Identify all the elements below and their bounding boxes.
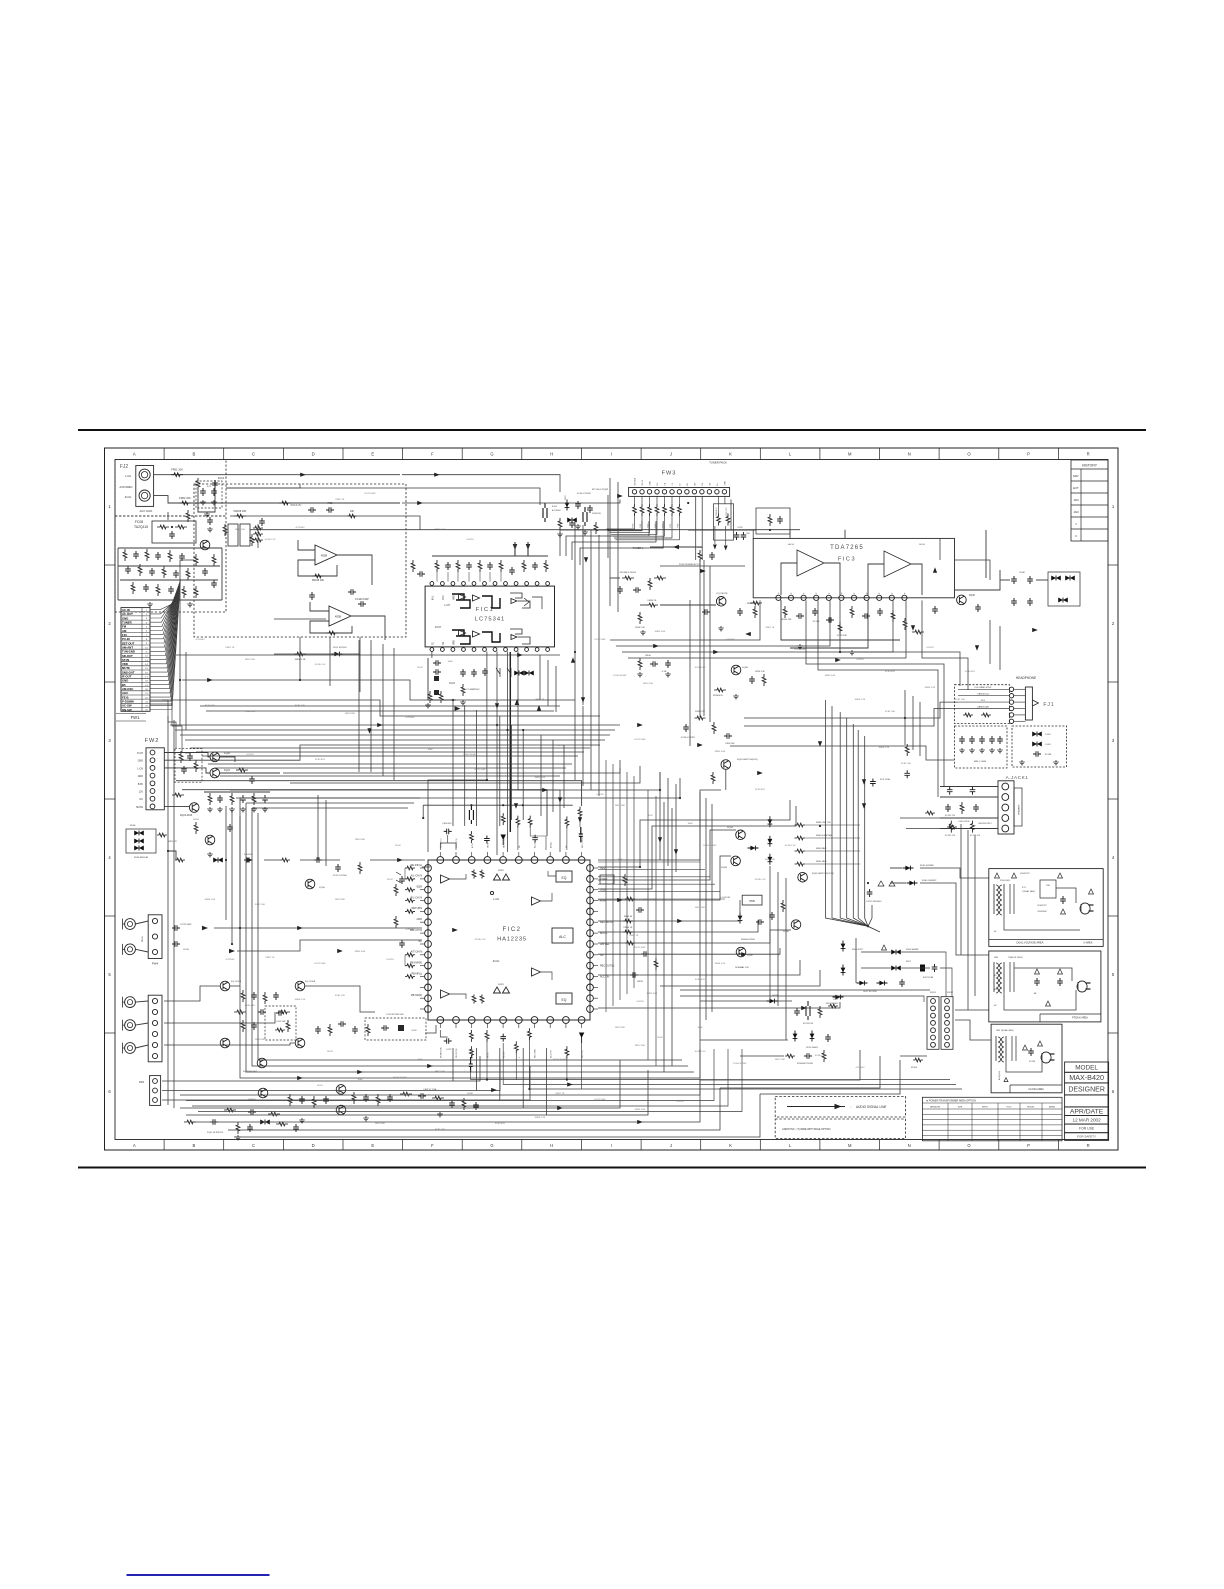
svg-text:3: 3 [108,738,111,743]
svg-text:4.7U/50V: 4.7U/50V [405,717,415,719]
svg-text:REC MUTE: REC MUTE [600,921,613,924]
svg-text:O2: O2 [443,641,445,645]
svg-text:FR06: FR06 [645,655,651,657]
rectifier diodes [867,865,938,903]
svg-text:P: P [1027,1143,1030,1148]
svg-text:P: P [816,592,818,594]
svg-text:B: B [193,1143,196,1148]
svg-text:FC36 4.7U/35V: FC36 4.7U/35V [681,737,695,739]
wire FQ21 out [219,772,280,774]
svg-text:FC64 1U/50V: FC64 1U/50V [393,1077,407,1079]
svg-text:FC30 47U: FC30 47U [755,789,765,791]
FW1 fan-out wires [150,580,180,710]
RCA jack REC-L [125,997,136,1008]
resistor FR68 [172,793,184,797]
svg-text:FR12 10K: FR12 10K [435,1071,445,1073]
FIC2 internal blocks [441,870,574,1005]
svg-text:FQ04: FQ04 [727,827,733,829]
svg-text:AUDIO SIGNAL LINE: AUDIO SIGNAL LINE [856,1105,887,1109]
svg-text:FW11: FW11 [930,992,936,994]
svg-text:FR01 10K: FR01 10K [171,468,183,472]
svg-text:FC45 0.1U: FC45 0.1U [755,879,766,881]
bottom staircase bus to transformer [180,1049,742,1112]
FIC2 bottom bus wires [471,1040,962,1090]
svg-text:FR02 10K: FR02 10K [179,496,191,500]
power transformer option table [922,1097,1062,1141]
svg-text:FR12 10K: FR12 10K [765,859,775,861]
svg-text:L-CH: L-CH [444,604,450,607]
svg-text:4.7U/50V: 4.7U/50V [225,959,235,961]
headphone jack wiring [958,687,1009,717]
svg-text:FQ20: FQ20 [224,752,231,755]
transistor FQ20 [210,752,220,762]
svg-text:EQR: EQR [417,886,423,889]
svg-text:CE: CE [665,482,667,485]
svg-text:A/L-CH IN: A/L-CH IN [411,875,423,878]
svg-text:P: P [778,592,780,594]
svg-text:100K: 100K [687,823,693,825]
svg-text:100K: 100K [417,1059,423,1061]
svg-text:AREA: AREA [1049,1105,1055,1108]
svg-text:C: C [252,452,255,457]
wire rec jacks [135,1001,148,1048]
svg-text:FR77: FR77 [834,999,840,1001]
svg-text:3: 3 [1112,738,1115,743]
svg-text:N: N [908,1143,911,1148]
svg-text:FM: FM [702,482,704,485]
svg-text:CANCEL(R): CANCEL(R) [977,705,989,708]
connector FJ1 headphone jack [1009,687,1038,724]
svg-text:FQ08: FQ08 [742,667,748,669]
svg-text:FC81 10U: FC81 10U [295,705,305,707]
svg-text:TA2Q115: TA2Q115 [134,525,148,529]
bottom-left bias parts [184,1119,299,1140]
connector FW5 [148,995,162,1062]
svg-text:FD02: FD02 [317,1085,323,1087]
svg-text:0V: 0V [994,1005,997,1007]
svg-text:G: G [490,1143,493,1148]
RCA jack REC-R [125,1020,136,1031]
FW3 right caps and arrows [713,526,751,551]
svg-text:FC45 0.1U: FC45 0.1U [315,664,326,666]
svg-text:FC22 100P: FC22 100P [794,649,806,651]
FW3 left parts cluster [565,489,610,558]
svg-text:FL18 FILTER 50R: FL18 FILTER 50R [387,1014,404,1016]
svg-text:MODEL: MODEL [1027,1106,1035,1108]
svg-text:100K: 100K [617,859,623,861]
svg-text:EQ: EQ [562,876,567,880]
svg-text:FR07 1K: FR07 1K [266,957,275,959]
svg-text:P: P [804,592,806,594]
wire FQ20 out [219,757,235,762]
FL15 filter parts [275,1010,286,1032]
svg-text:B5: B5 [687,483,689,485]
svg-text:REC IN(R): REC IN(R) [535,1049,537,1058]
svg-text:FW2: FW2 [145,738,160,744]
FW3 pulldown resistor row [607,496,682,539]
FIC1 internal switch logic upper [444,593,542,609]
svg-text:3V: 3V [994,975,997,977]
svg-text:FC01: FC01 [218,476,225,480]
svg-text:FC30 47U: FC30 47U [885,671,895,673]
svg-text:FC136: FC136 [1029,1061,1036,1063]
svg-text:DUAL VOLTAGE AREA: DUAL VOLTAGE AREA [1016,941,1043,945]
svg-text:110V/127V: 110V/127V [1020,873,1030,875]
psu filter caps [870,744,981,837]
svg-text:FC66: FC66 [185,753,191,755]
transistor FQ30 [957,595,967,605]
svg-text:HEADPHONE: HEADPHONE [1016,676,1036,680]
PTE UK area box [989,951,1101,1022]
svg-text:6801/S1 FR13: 6801/S1 FR13 [979,823,993,825]
FC08 surrounding RC network [118,540,222,607]
FIC1 top decoupling cluster [411,542,548,582]
svg-text:FC87: FC87 [447,1049,453,1051]
svg-text:AUX/VIDEO: AUX/VIDEO [119,486,132,489]
svg-text:FQ05 SWITCH(13.2V): FQ05 SWITCH(13.2V) [812,873,834,875]
svg-text:NC: NC [519,845,521,848]
wire FW2 l-ch [164,768,210,773]
svg-text:FD02: FD02 [565,495,567,500]
headphone RC divider [681,711,735,745]
svg-text:FD67: FD67 [906,961,912,963]
zobel network parts [637,655,671,677]
svg-text:FC45 0.1U: FC45 0.1U [265,539,276,541]
svg-text:I: I [611,452,612,457]
svg-text:MUTE: MUTE [488,1052,490,1058]
svg-text:0.022U: 0.022U [466,539,473,541]
svg-text:B/L-CH IN: B/L-CH IN [411,896,423,899]
svg-text:FC64 1U/50V: FC64 1U/50V [553,1059,567,1061]
svg-text:FC23: FC23 [449,683,455,685]
svg-text:0.022U: 0.022U [636,1001,643,1003]
svg-text:FT1: FT1 [1022,887,1027,889]
svg-text:FR44 2.2K: FR44 2.2K [205,899,216,901]
svg-text:FW3: FW3 [662,471,677,477]
UL CSA area box [991,1024,1062,1093]
svg-text:TUNER PACK: TUNER PACK [709,461,727,465]
FW3 right resistor box [714,496,734,540]
svg-text:FC54: FC54 [194,819,200,821]
svg-text:FR07 1K: FR07 1K [630,935,639,937]
svg-text:UBX T(DUAL 380V): UBX T(DUAL 380V) [996,1029,1014,1032]
svg-text:L-CH: L-CH [125,474,131,478]
svg-text:FC30: FC30 [183,949,189,951]
svg-text:FC109 100P: FC109 100P [355,598,369,601]
FIC3 feedback network [780,600,924,655]
FIC2 top pin row [437,852,585,863]
svg-text:FL34: FL34 [1046,744,1052,746]
control resistor ladder [795,822,861,866]
svg-text:REC OUT(L): REC OUT(L) [582,837,584,848]
svg-text:FC64 1U/50V: FC64 1U/50V [703,845,717,847]
svg-text:FR91 5.6K: FR91 5.6K [715,751,726,753]
svg-text:FR44 2.2K: FR44 2.2K [245,711,256,713]
svg-text:FC45 0.1U: FC45 0.1U [695,1051,706,1053]
svg-text:FC87 FC88: FC87 FC88 [923,977,934,979]
svg-text:A(T.L): A(T.L) [471,843,474,848]
svg-text:R: R [1087,1143,1090,1148]
svg-text:FC47 4.7U/50V: FC47 4.7U/50V [333,875,347,877]
svg-text:FR12 10K: FR12 10K [635,1045,645,1047]
svg-text:FR38 10K: FR38 10K [725,743,735,745]
svg-text:FR88: FR88 [697,547,703,549]
svg-text:DESIGNER: DESIGNER [1068,1086,1105,1093]
wire FW2 p-ch [164,753,210,757]
svg-text:J: J [670,1143,672,1148]
wire FJ2 L-CH output [154,474,400,476]
protection diode bank [126,825,178,859]
svg-text:FR55 IN: FR55 IN [624,916,633,918]
svg-text:12V: 12V [139,791,144,794]
svg-text:FL18: FL18 [412,1030,418,1032]
svg-text:FR91 5.6K: FR91 5.6K [647,993,658,995]
diode FD11 [332,647,348,656]
svg-text:4.7U/50V: 4.7U/50V [195,639,205,641]
svg-text:FR-ONE 4.7K/50V: FR-ONE 4.7K/50V [620,572,637,574]
capacitor FC104 [932,606,938,614]
dual voltage area box [989,869,1103,947]
long wire y530 [250,529,800,531]
svg-text:SM-CL: SM-CL [642,480,644,486]
transistor FQ22 [189,803,199,813]
svg-text:AUX(L): AUX(L) [549,841,552,848]
svg-text:FC86: FC86 [1019,572,1025,574]
svg-text:P: P [892,592,894,594]
svg-text:P: P [829,592,831,594]
FIC3 pin row [776,592,907,600]
svg-text:FR91 5.6K: FR91 5.6K [535,777,546,779]
svg-text:220: 220 [746,533,750,535]
svg-text:FQ7 MUTE: FQ7 MUTE [716,593,728,595]
svg-text:1: 1 [1075,522,1077,526]
svg-text:2: 2 [1112,621,1115,626]
svg-text:FR48 CNT ON: FR48 CNT ON [816,822,831,824]
svg-text:ALC: ALC [559,935,566,939]
dashed box headphone jack [955,685,1010,724]
svg-text:0.022U: 0.022U [676,1101,683,1103]
FIC2 bottom pin row [437,1017,585,1028]
svg-text:FC22 100P: FC22 100P [594,1099,606,1101]
top horizontal rule [78,429,1146,431]
svg-text:FD08: FD08 [130,825,136,827]
op-amp FIC3 left [797,550,824,576]
svg-text:C: C [252,1143,255,1148]
svg-text:PB-NF(T.L): PB-NF(T.L) [441,838,443,848]
svg-text:FR07 1K: FR07 1K [556,1093,565,1095]
svg-text:FR91 5.6K: FR91 5.6K [435,529,446,531]
svg-text:4.7U/50V: 4.7U/50V [405,929,415,931]
svg-text:FD02: FD02 [647,815,653,817]
svg-text:FC64 1U/50V: FC64 1U/50V [463,754,477,756]
svg-text:FR86: FR86 [677,524,679,528]
svg-text:1: 1 [108,504,111,509]
svg-text:GND: GND [416,918,422,921]
FIC3 input coupling parts [610,508,790,594]
svg-text:MAX-B420: MAX-B420 [1069,1073,1104,1082]
dashed box aux input area [115,460,226,517]
resistor FR03 shunt [196,478,200,490]
dashed box FW2 filter [175,749,202,783]
svg-text:FR56 1K: FR56 1K [624,927,633,929]
svg-text:FR106 20K: FR106 20K [780,619,792,621]
RCA jack GND [125,1043,136,1054]
svg-text:REC OUT(L): REC OUT(L) [600,965,614,968]
svg-text:FR12 10K: FR12 10K [643,683,653,685]
svg-text:12 MAR 2002: 12 MAR 2002 [1073,1118,1102,1123]
capacitor FC79 [975,604,981,612]
svg-text:D: D [312,1143,315,1148]
svg-text:FC115 3300/45V: FC115 3300/45V [867,901,883,903]
svg-text:1: 1 [1112,504,1115,509]
svg-text:H: H [550,452,553,457]
svg-text:FR44 2.2K: FR44 2.2K [535,1117,546,1119]
svg-text:FC22 100P: FC22 100P [364,493,376,495]
FIC3 output network [1000,572,1080,606]
svg-text:V REF: V REF [600,878,608,881]
svg-text:L: L [789,1143,792,1148]
svg-text:FC06: FC06 [552,506,558,508]
svg-text:FD02: FD02 [417,667,423,669]
bottom-left amp cluster [224,1085,479,1123]
svg-text:FR88 A.7K: FR88 A.7K [715,507,718,516]
svg-text:FR12 10K: FR12 10K [245,659,255,661]
FIC2 bottom pin labels [441,1047,584,1058]
ground FC02 [207,527,213,532]
svg-text:HB OUT(L): HB OUT(L) [503,838,505,848]
svg-text:HISTORY: HISTORY [1082,464,1098,468]
svg-text:FD07 S13 S58: FD07 S13 S58 [863,991,877,993]
svg-text:0.022U: 0.022U [386,959,393,961]
IC FC08 preamp block [152,521,196,543]
svg-text:B.8V: B.8V [138,783,144,786]
svg-text:L: L [789,452,792,457]
FIC2 right fanout wires [598,862,725,899]
svg-text:P: P [1027,452,1030,457]
svg-text::: : [851,1105,852,1109]
svg-text:A/B SEL: A/B SEL [600,943,610,946]
FL18 filter parts [381,1014,417,1032]
svg-text:0.1R: 0.1R [662,671,667,673]
svg-text:FR19 330: FR19 330 [355,839,365,841]
bottom horizontal rule [78,1167,1146,1169]
svg-text:FR09 472: FR09 472 [168,841,178,843]
border column coordinate labels [133,448,1090,1150]
svg-text:4558: 4558 [321,554,328,558]
svg-text:FC45 0.1U: FC45 0.1U [785,845,796,847]
svg-text:FC30 47U: FC30 47U [315,759,325,761]
svg-text:ALC ON: ALC ON [600,976,610,979]
svg-text:M: M [848,1143,852,1148]
svg-text:VOLT: VOLT [1006,1106,1012,1108]
svg-text:FR98L 4.7K: FR98L 4.7K [747,603,758,605]
svg-text:FOR SAFETY: FOR SAFETY [1077,1135,1096,1139]
svg-text:FR06 330: FR06 330 [443,823,453,825]
svg-text:FR100: FR100 [911,1067,918,1069]
svg-text:FL9: FL9 [981,700,986,702]
svg-text:FD08 EN114B: FD08 EN114B [134,857,148,859]
svg-text:FR108 10K: FR108 10K [312,579,324,582]
routed bus wires [162,475,1000,1137]
svg-text:FR85: FR85 [670,524,672,528]
svg-text:VRB: VRB [454,595,456,600]
svg-text:FR91 5.6K: FR91 5.6K [825,675,836,677]
svg-text:P-CH: P-CH [137,752,143,755]
svg-text:FW1: FW1 [131,715,141,720]
svg-text:P: P [904,592,906,594]
dashed box FL18 filter [365,1018,426,1040]
svg-text:PB-NF(R): PB-NF(R) [411,994,422,997]
svg-text:FC22 100P: FC22 100P [314,963,326,965]
svg-text:FR07 1K: FR07 1K [556,745,565,747]
schematic inner border [115,460,1108,1140]
svg-text:SW: SW [1046,885,1050,887]
wire RCA-L to conn [135,921,148,924]
svg-text:DI: DI [679,483,681,485]
selector input RC parts [223,501,357,546]
svg-text:ALC(T.L): ALC(T.L) [534,840,537,848]
svg-text:SB: SB [1034,993,1037,995]
title block [1065,1062,1109,1140]
svg-text:4.7U/50V: 4.7U/50V [855,1067,865,1069]
svg-text:FQ45: FQ45 [319,887,325,889]
svg-text:A: A [133,1143,136,1148]
svg-text:RETURN: RETURN [412,907,423,910]
svg-text:0.022U: 0.022U [596,794,603,796]
svg-text:TDA7265: TDA7265 [830,545,864,551]
svg-text:FD02: FD02 [395,845,401,847]
op-amp FIC4B [329,606,351,626]
svg-text:B: B [193,452,196,457]
svg-text:A-CH: A-CH [788,543,794,546]
dashed box ferrite bead area [1012,726,1067,767]
svg-text:FJ1: FJ1 [1043,702,1054,708]
svg-text:P: P [841,592,843,594]
svg-text:MD-SDA: MD-SDA [634,477,637,485]
svg-text:N: N [908,452,911,457]
svg-text:FQ21: FQ21 [224,769,231,772]
svg-text:R: R [1087,452,1090,457]
svg-text:FR160 A-T/51/W1: FR160 A-T/51/W1 [797,1062,814,1065]
svg-text:SIZE: SIZE [958,1106,963,1108]
svg-text:UL/CSA AREA: UL/CSA AREA [1028,1088,1044,1091]
wire FW2 mute [164,805,189,807]
svg-text:UBX: UBX [994,957,999,959]
connector FW3 tuner pack [629,488,730,497]
svg-text:FQ C1008: FQ C1008 [305,981,316,983]
resistor FR08 [294,652,306,661]
svg-text:AREA(TR): AREA(TR) [930,1105,940,1108]
svg-text:FOR USE: FOR USE [1079,1127,1095,1131]
FIC1 bottom pin row [430,648,549,652]
svg-text:R-CH: R-CH [125,495,132,499]
dashed box FC08 area [115,516,226,612]
svg-text:FC81 10U: FC81 10U [435,1129,445,1131]
svg-text:T(DUAL 380V): T(DUAL 380V) [1022,890,1035,893]
svg-text:FR60 A.7U/50V: FR60 A.7U/50V [741,938,756,941]
audio signal direction arrows [207,473,1038,1125]
svg-text:FL10 BMD STEP: FL10 BMD STEP [975,687,992,689]
svg-text:FC82: FC82 [738,527,744,529]
connector FJ2 aux jack [136,466,154,507]
svg-text:FC22 100P: FC22 100P [634,739,646,741]
svg-text:VRB: VRB [454,640,456,645]
svg-text:FW12: FW12 [947,992,954,994]
svg-text:FR44 2.2K: FR44 2.2K [879,747,890,749]
svg-text:FC103: FC103 [813,621,820,623]
svg-text:FC34 4.7U/50V: FC34 4.7U/50V [577,493,591,495]
svg-text:U-AREA: U-AREA [1083,942,1092,945]
